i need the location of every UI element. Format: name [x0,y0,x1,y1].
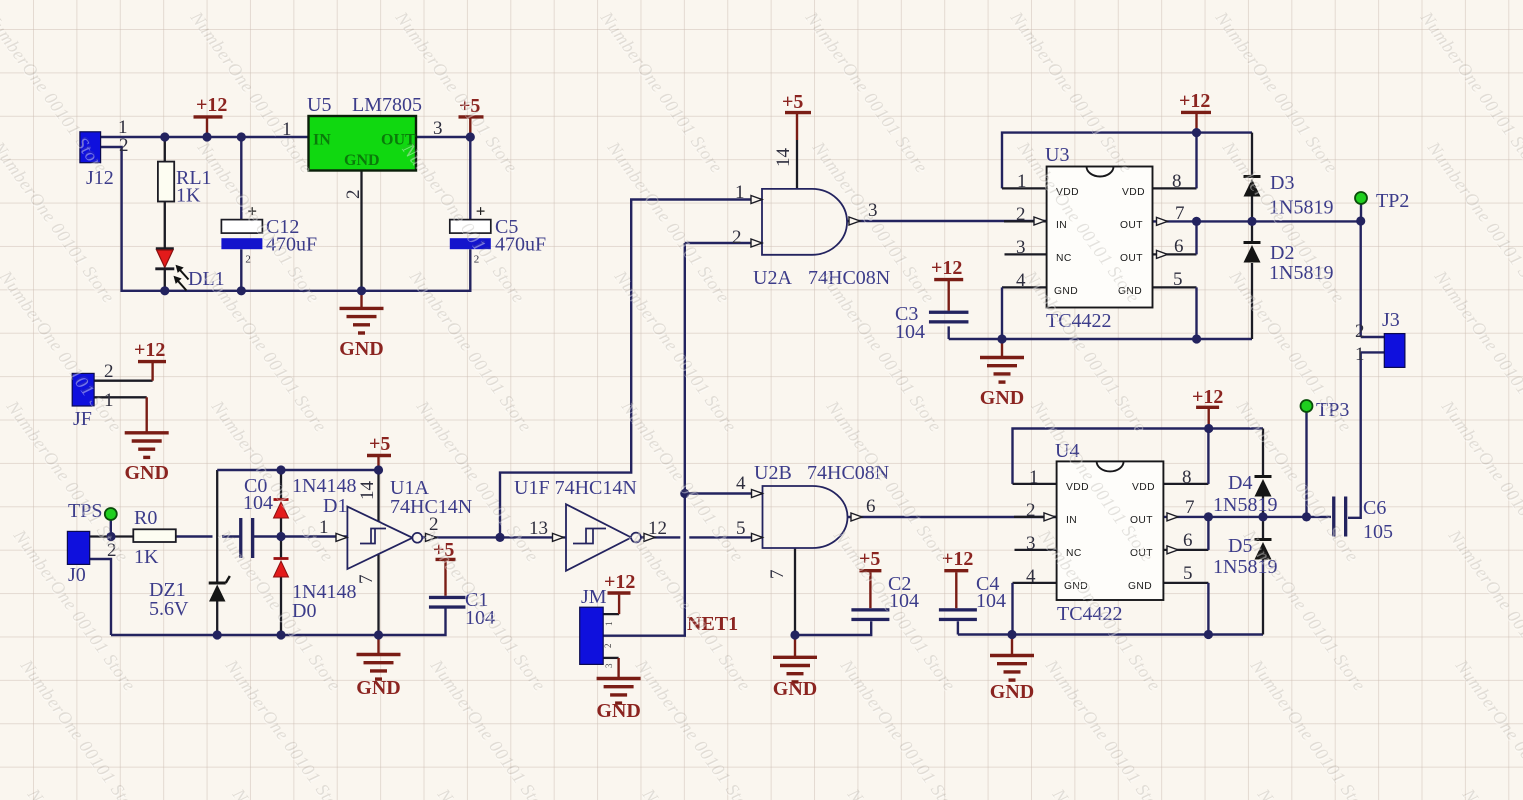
svg-text:1: 1 [735,182,745,203]
svg-text:6: 6 [866,496,876,517]
svg-text:1K: 1K [176,185,201,207]
svg-text:+12: +12 [931,257,962,279]
svg-text:D1: D1 [323,495,347,517]
svg-text:VDD: VDD [1132,482,1155,493]
svg-text:C6: C6 [1363,497,1386,519]
svg-text:U1F 74HC14N: U1F 74HC14N [514,477,637,499]
svg-text:8: 8 [1182,467,1192,488]
svg-text:2: 2 [119,135,129,156]
svg-text:2: 2 [104,361,114,382]
svg-text:4: 4 [1026,566,1036,587]
svg-text:IN: IN [1066,515,1077,526]
svg-text:+12: +12 [134,339,165,361]
svg-text:14: 14 [357,481,378,501]
svg-text:3: 3 [1026,533,1036,554]
svg-text:1: 1 [1355,344,1365,365]
svg-text:GND: GND [356,677,400,699]
svg-text:JM: JM [581,586,607,608]
svg-text:2: 2 [1016,204,1026,225]
svg-text:GND: GND [1128,581,1152,592]
svg-text:U2B: U2B [754,462,792,484]
svg-text:TP2: TP2 [1376,190,1409,212]
svg-text:5: 5 [1183,563,1193,584]
svg-text:OUT: OUT [1120,253,1143,264]
svg-text:OUT: OUT [1120,220,1143,231]
svg-text:14: 14 [773,148,794,168]
svg-text:104: 104 [976,590,1006,612]
svg-text:2: 2 [732,227,742,248]
svg-text:105: 105 [1363,521,1393,543]
svg-text:2: 2 [603,644,613,649]
svg-text:13: 13 [529,518,548,539]
svg-text:1: 1 [1017,171,1027,192]
svg-text:3: 3 [1016,237,1026,258]
svg-text:4: 4 [736,473,746,494]
svg-text:+12: +12 [1179,90,1210,112]
svg-text:GND: GND [990,681,1034,703]
svg-text:+12: +12 [196,94,227,116]
svg-text:1K: 1K [134,546,159,568]
svg-text:12: 12 [648,518,667,539]
svg-text:GND: GND [596,700,640,722]
svg-text:+5: +5 [782,91,803,113]
svg-text:NC: NC [1056,253,1072,264]
svg-text:104: 104 [895,321,925,343]
svg-text:8: 8 [1172,171,1182,192]
svg-text:J3: J3 [1382,309,1400,331]
svg-text:7: 7 [1175,203,1185,224]
svg-text:1N4148: 1N4148 [292,475,356,497]
svg-text:R0: R0 [134,507,157,529]
svg-text:+12: +12 [604,571,635,593]
svg-text:+: + [476,202,486,221]
svg-text:IN: IN [313,132,331,149]
svg-text:LM7805: LM7805 [352,94,422,116]
svg-text:470uF: 470uF [495,234,546,256]
svg-text:5: 5 [1173,269,1183,290]
svg-text:7: 7 [767,570,788,580]
svg-text:VDD: VDD [1122,187,1145,198]
svg-text:JF: JF [73,408,92,430]
svg-text:2: 2 [343,190,364,200]
svg-text:2: 2 [1355,321,1365,342]
svg-text:GND: GND [344,152,380,169]
svg-text:+5: +5 [369,433,390,455]
svg-text:5.6V: 5.6V [149,598,189,620]
svg-text:U5: U5 [307,94,331,116]
svg-text:2: 2 [1026,500,1036,521]
svg-text:6: 6 [1183,530,1193,551]
svg-text:7: 7 [1185,497,1195,518]
svg-text:J0: J0 [68,564,86,586]
svg-text:GND: GND [124,462,168,484]
svg-text:1: 1 [1029,467,1039,488]
svg-text:6: 6 [1174,236,1184,257]
svg-text:3: 3 [604,663,614,668]
svg-text:3: 3 [433,118,443,139]
svg-text:+12: +12 [1192,386,1223,408]
svg-text:D4: D4 [1228,472,1252,494]
svg-text:U2A: U2A [753,267,792,289]
svg-text:1: 1 [604,622,614,627]
svg-text:7: 7 [356,575,377,585]
svg-text:1N5819: 1N5819 [1213,494,1277,516]
svg-text:GND: GND [773,678,817,700]
svg-text:2: 2 [245,254,251,266]
svg-text:GND: GND [980,387,1024,409]
svg-text:GND: GND [339,338,383,360]
svg-text:5: 5 [736,518,746,539]
